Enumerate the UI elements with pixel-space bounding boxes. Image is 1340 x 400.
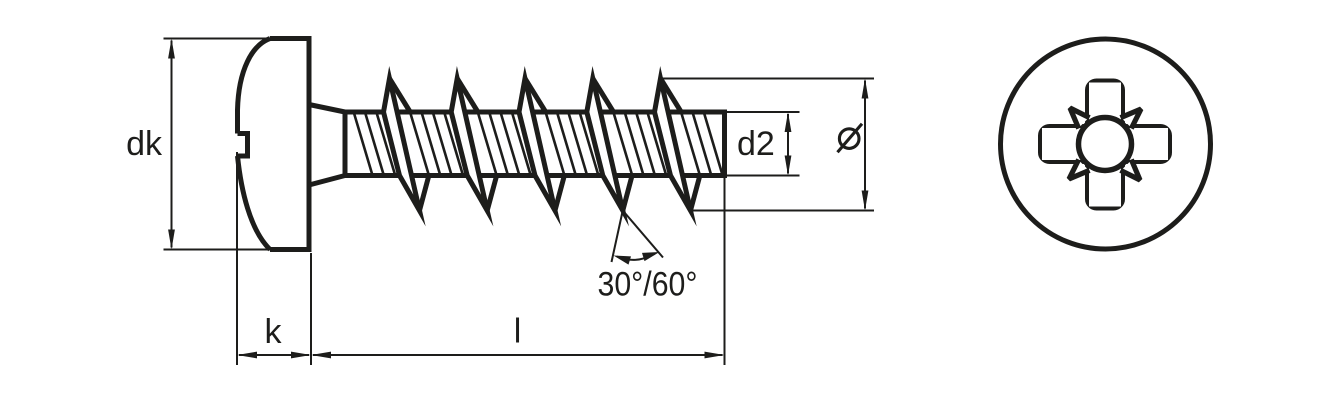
thread crest 3 upper flank edge: [525, 79, 546, 113]
svg-text:k: k: [265, 313, 283, 351]
head dome lower curve: [238, 156, 271, 250]
angle arc arrow right: [642, 252, 660, 261]
pozidriv cross vertical slot: [1088, 81, 1123, 208]
diameter extension line bottom: [691, 210, 875, 212]
thread crest 3 band (apex to tip): [519, 79, 555, 211]
thread crest 2 lower flank edge: [487, 175, 497, 211]
thread core top edge: [345, 110, 725, 115]
dk extension line bottom: [164, 249, 271, 251]
thread crest 4 band (apex to tip): [587, 79, 623, 211]
thread crest 2 upper flank edge: [457, 79, 478, 113]
screw head outline (pan head, side view): [270, 39, 309, 250]
k extension line left: [236, 152, 238, 365]
diameter arrow down: [862, 191, 869, 211]
l dimension arrow left: [311, 352, 331, 359]
thread crest 1 upper flank edge: [390, 79, 411, 113]
d2 dimension arrow up: [785, 112, 792, 132]
thread crest 5 band (apex to tip): [655, 79, 691, 211]
d2 dimension line: [787, 114, 789, 174]
angle arc arrow left: [614, 256, 632, 265]
thread core bottom edge: [345, 173, 725, 178]
d2 extension line top: [727, 111, 800, 113]
diameter dimension line: [864, 81, 866, 209]
thread crest 1 band (apex to tip): [384, 79, 420, 211]
dk dimension arrow up: [168, 39, 175, 59]
svg-text:dk: dk: [126, 125, 163, 163]
head dome upper curve: [238, 39, 271, 134]
thread core right end: [722, 110, 727, 179]
d2 extension line bottom: [727, 175, 800, 177]
thread angle leader line left: [612, 211, 623, 263]
d2 dimension arrow down: [785, 156, 792, 176]
k / l shared extension line: [310, 253, 312, 365]
pozidriv tick mark 3: [1121, 160, 1141, 181]
thread angle leader line right: [623, 211, 663, 258]
k dimension line: [239, 354, 309, 356]
l extension line right: [724, 178, 726, 365]
recess notch in dome silhouette: [238, 134, 248, 157]
head outer circle (front view): [1001, 39, 1211, 249]
dk extension line top: [164, 38, 271, 40]
thread root hatch lines: [354, 114, 722, 175]
svg-text:l: l: [514, 313, 522, 351]
diameter arrow up: [862, 79, 869, 99]
thread crest 5 lower flank edge: [691, 175, 701, 211]
diameter symbol: [839, 129, 859, 149]
under-head cone (neck): [309, 105, 345, 186]
thread crest 5 upper flank edge: [661, 79, 682, 113]
k dimension arrow left: [237, 352, 257, 359]
thread crest 4 upper flank edge: [593, 79, 614, 113]
pozidriv tick mark 4: [1069, 160, 1090, 180]
thread crest 4 lower flank edge: [623, 175, 632, 211]
pozidriv cross union fill: [1089, 83, 1121, 207]
dk dimension arrow down: [168, 230, 175, 250]
pozidriv tick mark 1: [1070, 108, 1090, 129]
l dimension line: [313, 354, 723, 356]
thread crest 3 lower flank edge: [555, 175, 565, 211]
dk dimension line: [171, 41, 173, 248]
pozidriv tick mark 2: [1121, 109, 1142, 129]
svg-text:d2: d2: [737, 125, 775, 163]
cone/core boundary vertical: [343, 111, 348, 177]
l dimension arrow right: [705, 352, 725, 359]
thread crest 2 band (apex to tip): [451, 79, 487, 211]
k dimension arrow right: [291, 352, 311, 359]
thread angle arc with arrows: [617, 254, 655, 260]
thread crest 1 lower flank edge: [420, 175, 430, 211]
pozidriv cross horizontal slot: [1041, 127, 1170, 162]
svg-text:30°/60°: 30°/60°: [598, 266, 698, 304]
pozidriv center circle: [1079, 118, 1132, 171]
diameter extension line top: [661, 78, 875, 80]
